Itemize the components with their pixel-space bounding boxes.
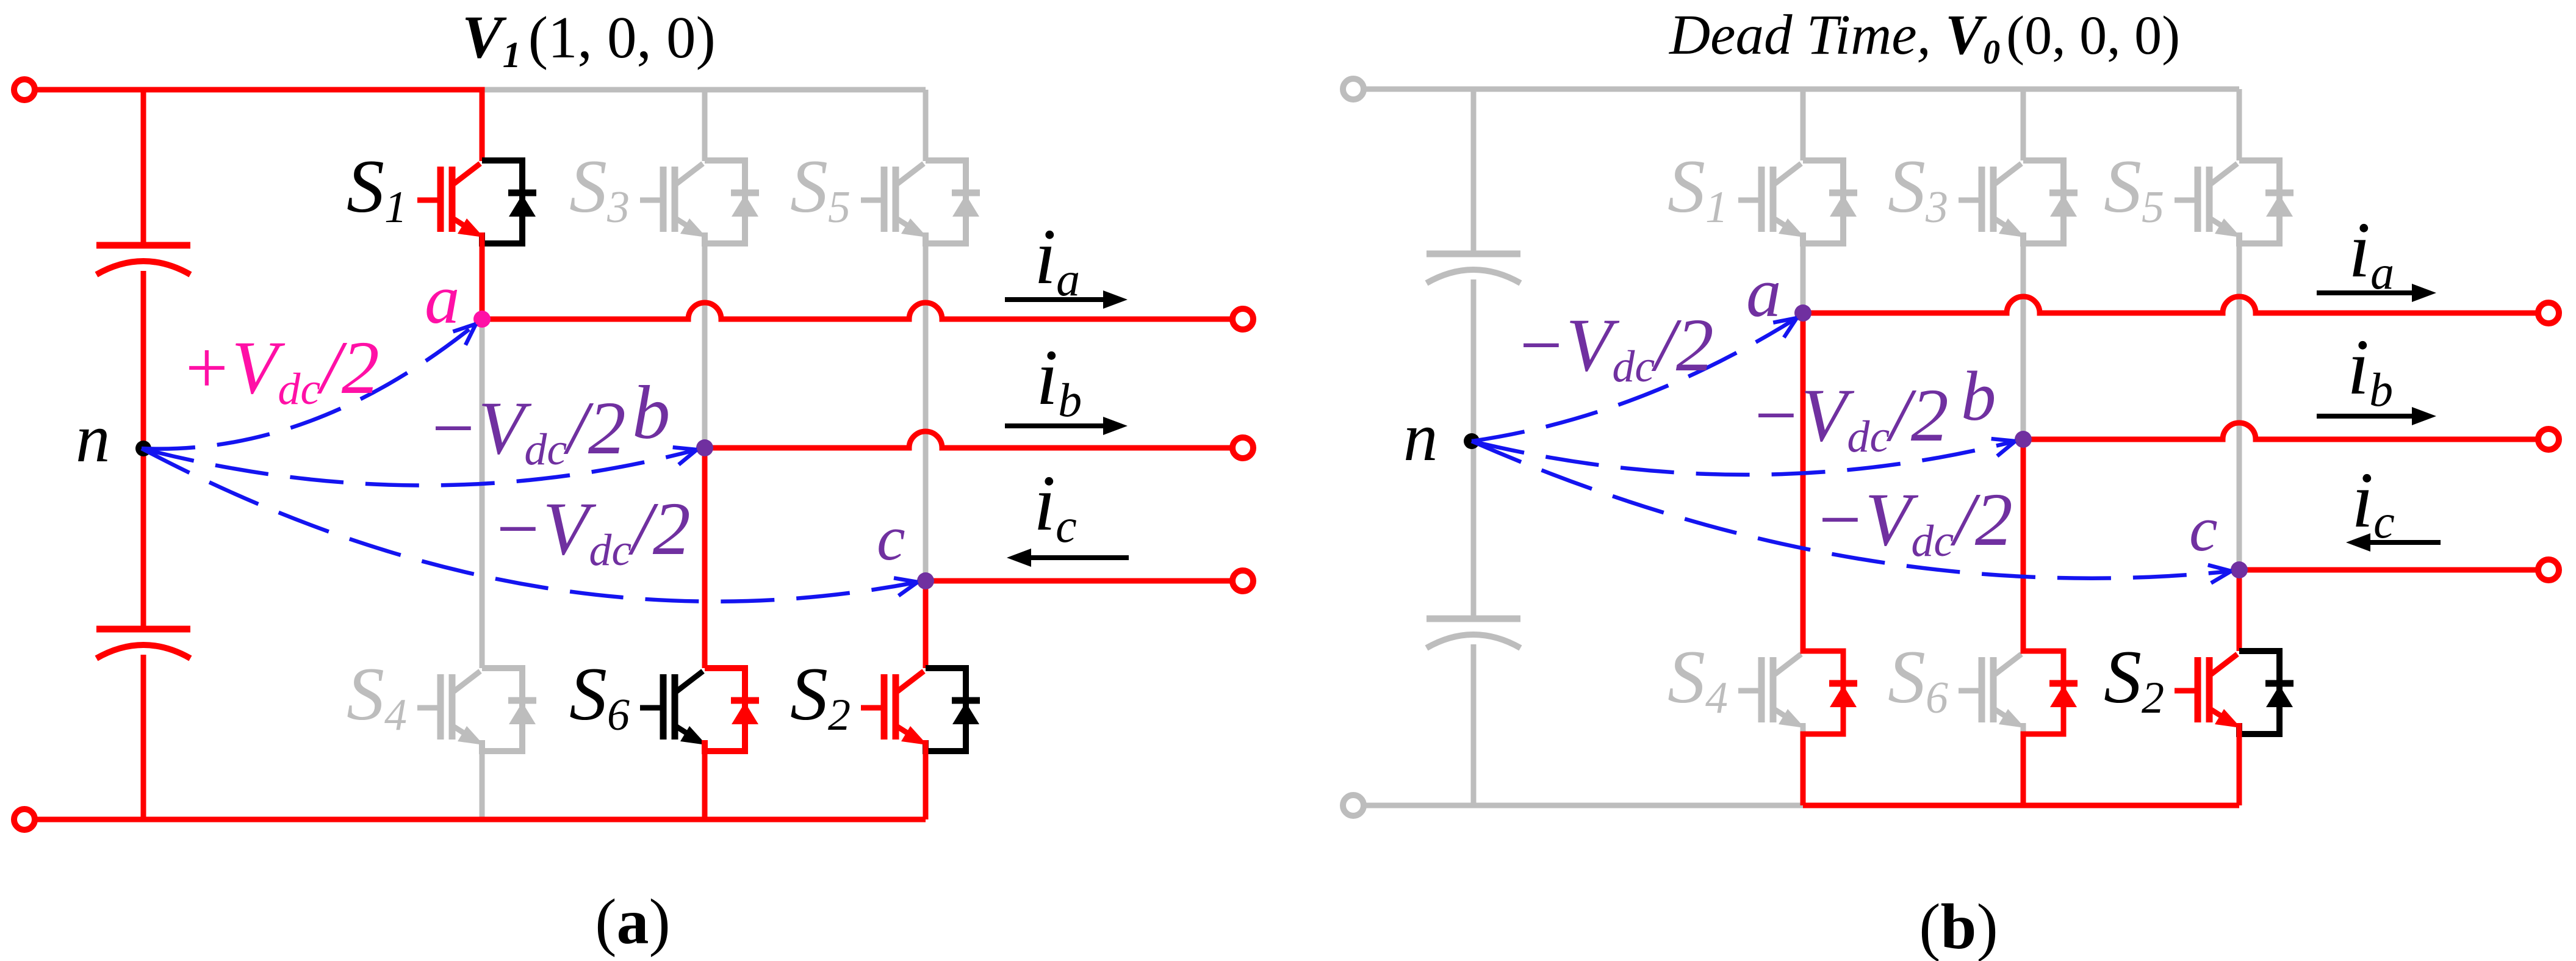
- transistor S6 IGBT body (gray, off, panel b): [1959, 654, 2025, 734]
- wire: gray DC+ top rail and all upper legs (panel b): [1362, 87, 2239, 92]
- dashed blue arrow: n to c (-Vdc/2): [142, 448, 918, 602]
- wire: red DC-link capacitor branch upper: [141, 90, 146, 245]
- svg-text:n: n: [1403, 399, 1438, 475]
- current arrow i_c (black, leftward): [1030, 555, 1129, 560]
- svg-text:ib: ib: [1036, 334, 1082, 427]
- svg-text:S2: S2: [790, 652, 851, 740]
- svg-text:c: c: [877, 502, 905, 574]
- wire: gray top rail segment (leg a to leg c): [482, 87, 926, 93]
- svg-text:S3: S3: [569, 145, 630, 232]
- svg-text:S5: S5: [2104, 145, 2164, 232]
- wire: red phase b output with crossover hop, to terminal: [705, 431, 1234, 448]
- wire: red leg b lower (node b to S6 collector): [702, 448, 708, 668]
- transistor S2 IGBT body (red, conducting, panel b): [2175, 654, 2241, 734]
- S4 freewheel diode (red, conducting, panel b): [1829, 683, 1857, 707]
- svg-text:ia: ia: [1034, 213, 1080, 306]
- wire: gray leg c middle (S5 emitter to node c): [2237, 243, 2242, 570]
- transistor S2 IGBT body (red, conducting): [861, 671, 927, 751]
- svg-text:c: c: [2189, 493, 2218, 564]
- wire: red leg c lower (node c to S2 collector): [923, 581, 929, 668]
- svg-text:S1: S1: [347, 145, 407, 232]
- wire: gray leg a upper (rail to S1 collector): [1801, 89, 1806, 160]
- S3 antiparallel diode loop (gray, panel b): [2023, 160, 2078, 243]
- terminal: phase a output (red circle, panel b): [2538, 303, 2559, 323]
- svg-text:S3: S3: [1888, 145, 1948, 232]
- S1 antiparallel diode loop (gray, panel b): [1803, 160, 1857, 243]
- wire: gray capacitor branch lower: [1471, 644, 1477, 805]
- svg-text:S1: S1: [1668, 145, 1728, 232]
- wire: red capacitor branch middle (through node n): [141, 271, 146, 629]
- S2 antiparallel diode loop (black, panel b): [2239, 651, 2294, 734]
- dashed blue arrow: n to a (+Vdc/2): [142, 324, 476, 449]
- transistor S3 IGBT body (gray, off): [640, 164, 707, 243]
- transistor S6 IGBT body (black, gated on): [640, 671, 707, 751]
- svg-text:−Vdc/2: −Vdc/2: [427, 386, 626, 475]
- transistor S4 IGBT body (gray, off): [417, 671, 484, 751]
- wire: gray leg c middle (S5 emitter to node c): [923, 243, 929, 581]
- wire: gray leg b middle (S3 emitter to node b): [702, 243, 708, 448]
- svg-text:−Vdc/2: −Vdc/2: [1750, 373, 1949, 462]
- svg-text:−Vdc/2: −Vdc/2: [1814, 478, 2013, 566]
- svg-text:(b): (b): [1919, 891, 1998, 961]
- node n (capacitor midpoint, black dot): [135, 441, 151, 456]
- current arrow i_c (black, leftward, panel b): [2367, 540, 2441, 545]
- dashed blue arrow: n to a (-Vdc/2, panel b): [1472, 318, 1797, 441]
- S1 antiparallel diode loop (black): [482, 160, 536, 243]
- terminal: phase c output (red circle): [1232, 570, 1253, 591]
- node a (pink junction dot): [473, 311, 491, 328]
- wire: red DC+ top rail and leg a down to S1 collector: [33, 90, 482, 161]
- wire: gray leg a lower (node a to S4 collector): [480, 319, 485, 668]
- wire: gray leg b upper (rail to S3 collector): [702, 90, 708, 161]
- wire: gray leg c upper (rail to S5 collector): [923, 90, 929, 161]
- svg-text:ic: ic: [1034, 459, 1077, 552]
- capacitor C1 (red): [96, 245, 190, 275]
- transistor S5 IGBT body (gray, off): [861, 164, 927, 243]
- svg-text:V1(1, 0, 0): V1(1, 0, 0): [462, 3, 716, 75]
- wire: red S2 emitter to bottom rail (panel b): [2237, 734, 2242, 805]
- dashed blue arrow: n to b (-Vdc/2): [142, 448, 697, 486]
- wire: red phase b output with crossover hop, to terminal (panel b): [2023, 423, 2539, 439]
- wire: red freewheeling path leg a (node a through S4 diode to rail): [1803, 313, 1843, 805]
- terminal: DC+ input (red circle): [14, 79, 35, 100]
- wire: gray DC- bottom rail left segment: [1362, 803, 1803, 808]
- wire: red S1 emitter down to node a: [480, 243, 485, 319]
- wire: red phase c output to terminal (panel b): [2239, 567, 2539, 573]
- wire: red DC- bottom rail segment (panel b): [1803, 803, 2239, 808]
- S6 freewheel diode loop (red, conducting): [705, 668, 759, 751]
- wire: gray capacitor branch upper: [1471, 89, 1477, 254]
- wire: gray leg c upper (rail to S5 collector): [2237, 89, 2242, 160]
- svg-text:a: a: [1746, 254, 1782, 331]
- svg-text:S6: S6: [1888, 635, 1948, 723]
- wire: gray capacitor branch middle (through node n): [1471, 279, 1477, 619]
- svg-text:(a): (a): [595, 886, 671, 957]
- svg-text:Dead Time, V0(0, 0, 0): Dead Time, V0(0, 0, 0): [1668, 4, 2180, 71]
- svg-text:−Vdc/2: −Vdc/2: [492, 487, 691, 575]
- S5 antiparallel diode loop (gray, panel b): [2239, 160, 2294, 243]
- S6 freewheel diode (red, conducting, panel b): [2049, 683, 2078, 707]
- svg-text:−Vdc/2: −Vdc/2: [1515, 303, 1714, 392]
- S4 antiparallel diode loop (gray): [482, 668, 536, 751]
- svg-text:S4: S4: [1668, 635, 1728, 723]
- terminal: phase b output (red circle): [1232, 437, 1253, 458]
- terminal: phase b output (red circle, panel b): [2538, 429, 2559, 450]
- terminal: DC- input (red circle): [14, 809, 35, 830]
- transistor S1 IGBT body (red, conducting): [417, 164, 484, 243]
- svg-text:n: n: [76, 400, 110, 477]
- node a (purple junction dot, panel b): [1794, 304, 1811, 322]
- wire: red freewheeling path leg b (node b through S6 diode to rail): [2023, 439, 2063, 805]
- svg-text:ic: ic: [2351, 456, 2395, 548]
- S2 antiparallel diode loop (black): [926, 668, 980, 751]
- wire: red S2 emitter to bottom rail: [923, 751, 929, 819]
- capacitor C4 (gray): [1427, 619, 1520, 648]
- terminal: DC- input (gray circle): [1343, 795, 1364, 816]
- wire: red leg c lower (node c to S2 collector, panel b): [2237, 570, 2242, 651]
- dashed blue arrow: n to c (-Vdc/2, panel b): [1472, 441, 2231, 578]
- svg-text:S2: S2: [2104, 635, 2164, 723]
- current arrow i_b (black, rightward): [1005, 423, 1104, 428]
- svg-text:S6: S6: [569, 652, 630, 740]
- svg-text:ia: ia: [2348, 206, 2394, 299]
- wire: gray leg b upper (rail to S3 collector): [2021, 89, 2026, 160]
- terminal: phase a output (red circle): [1232, 309, 1253, 329]
- svg-text:ib: ib: [2347, 323, 2393, 416]
- transistor S1 IGBT body (gray, off, panel b): [1738, 164, 1805, 243]
- wire: red phase a output with crossover hops, to terminal: [482, 303, 1234, 319]
- node n (capacitor midpoint, black dot, panel b): [1464, 433, 1480, 449]
- svg-text:S5: S5: [790, 145, 851, 232]
- svg-text:a: a: [425, 261, 460, 338]
- wire: gray leg a middle (S1 emitter to node a): [1801, 243, 1806, 313]
- terminal: DC+ input (gray circle): [1343, 79, 1364, 99]
- S3 antiparallel diode loop (gray): [705, 160, 759, 243]
- wire: gray leg b middle (S3 emitter to node b): [2021, 243, 2026, 439]
- node c (purple junction dot): [917, 572, 934, 589]
- wire: red S6 emitter to bottom rail: [702, 751, 708, 819]
- node b (purple junction dot): [696, 439, 713, 456]
- S5 antiparallel diode loop (gray): [926, 160, 980, 243]
- svg-text:b: b: [1961, 358, 1996, 435]
- node b (purple junction dot, panel b): [2015, 431, 2032, 448]
- node c (purple junction dot, panel b): [2231, 561, 2248, 578]
- wire: red capacitor branch lower: [141, 655, 146, 819]
- terminal: phase c output (red circle, panel b): [2538, 560, 2559, 580]
- capacitor C3 (gray): [1427, 254, 1520, 283]
- wire: gray S4 emitter to bottom rail: [480, 751, 485, 819]
- current arrow i_a (black, rightward): [1005, 297, 1104, 302]
- svg-text:+Vdc/2: +Vdc/2: [181, 326, 380, 414]
- svg-text:S4: S4: [347, 652, 407, 740]
- wire: red phase c output to terminal: [926, 578, 1234, 584]
- transistor S3 IGBT body (gray, off, panel b): [1959, 164, 2025, 243]
- capacitor C2 (red): [96, 629, 190, 658]
- transistor S5 IGBT body (gray, off, panel b): [2175, 164, 2241, 243]
- dashed blue arrow: n to b (-Vdc/2, panel b): [1472, 441, 2015, 475]
- current arrow i_b (black, rightward, panel b): [2317, 414, 2413, 419]
- transistor S4 IGBT body (gray, off, panel b): [1738, 654, 1805, 734]
- wire: red phase a output with crossover hops, to terminal (panel b): [1803, 297, 2539, 313]
- current arrow i_a (black, rightward, panel b): [2317, 290, 2413, 295]
- svg-text:b: b: [632, 371, 671, 455]
- wire: red DC- bottom rail: [33, 817, 926, 822]
